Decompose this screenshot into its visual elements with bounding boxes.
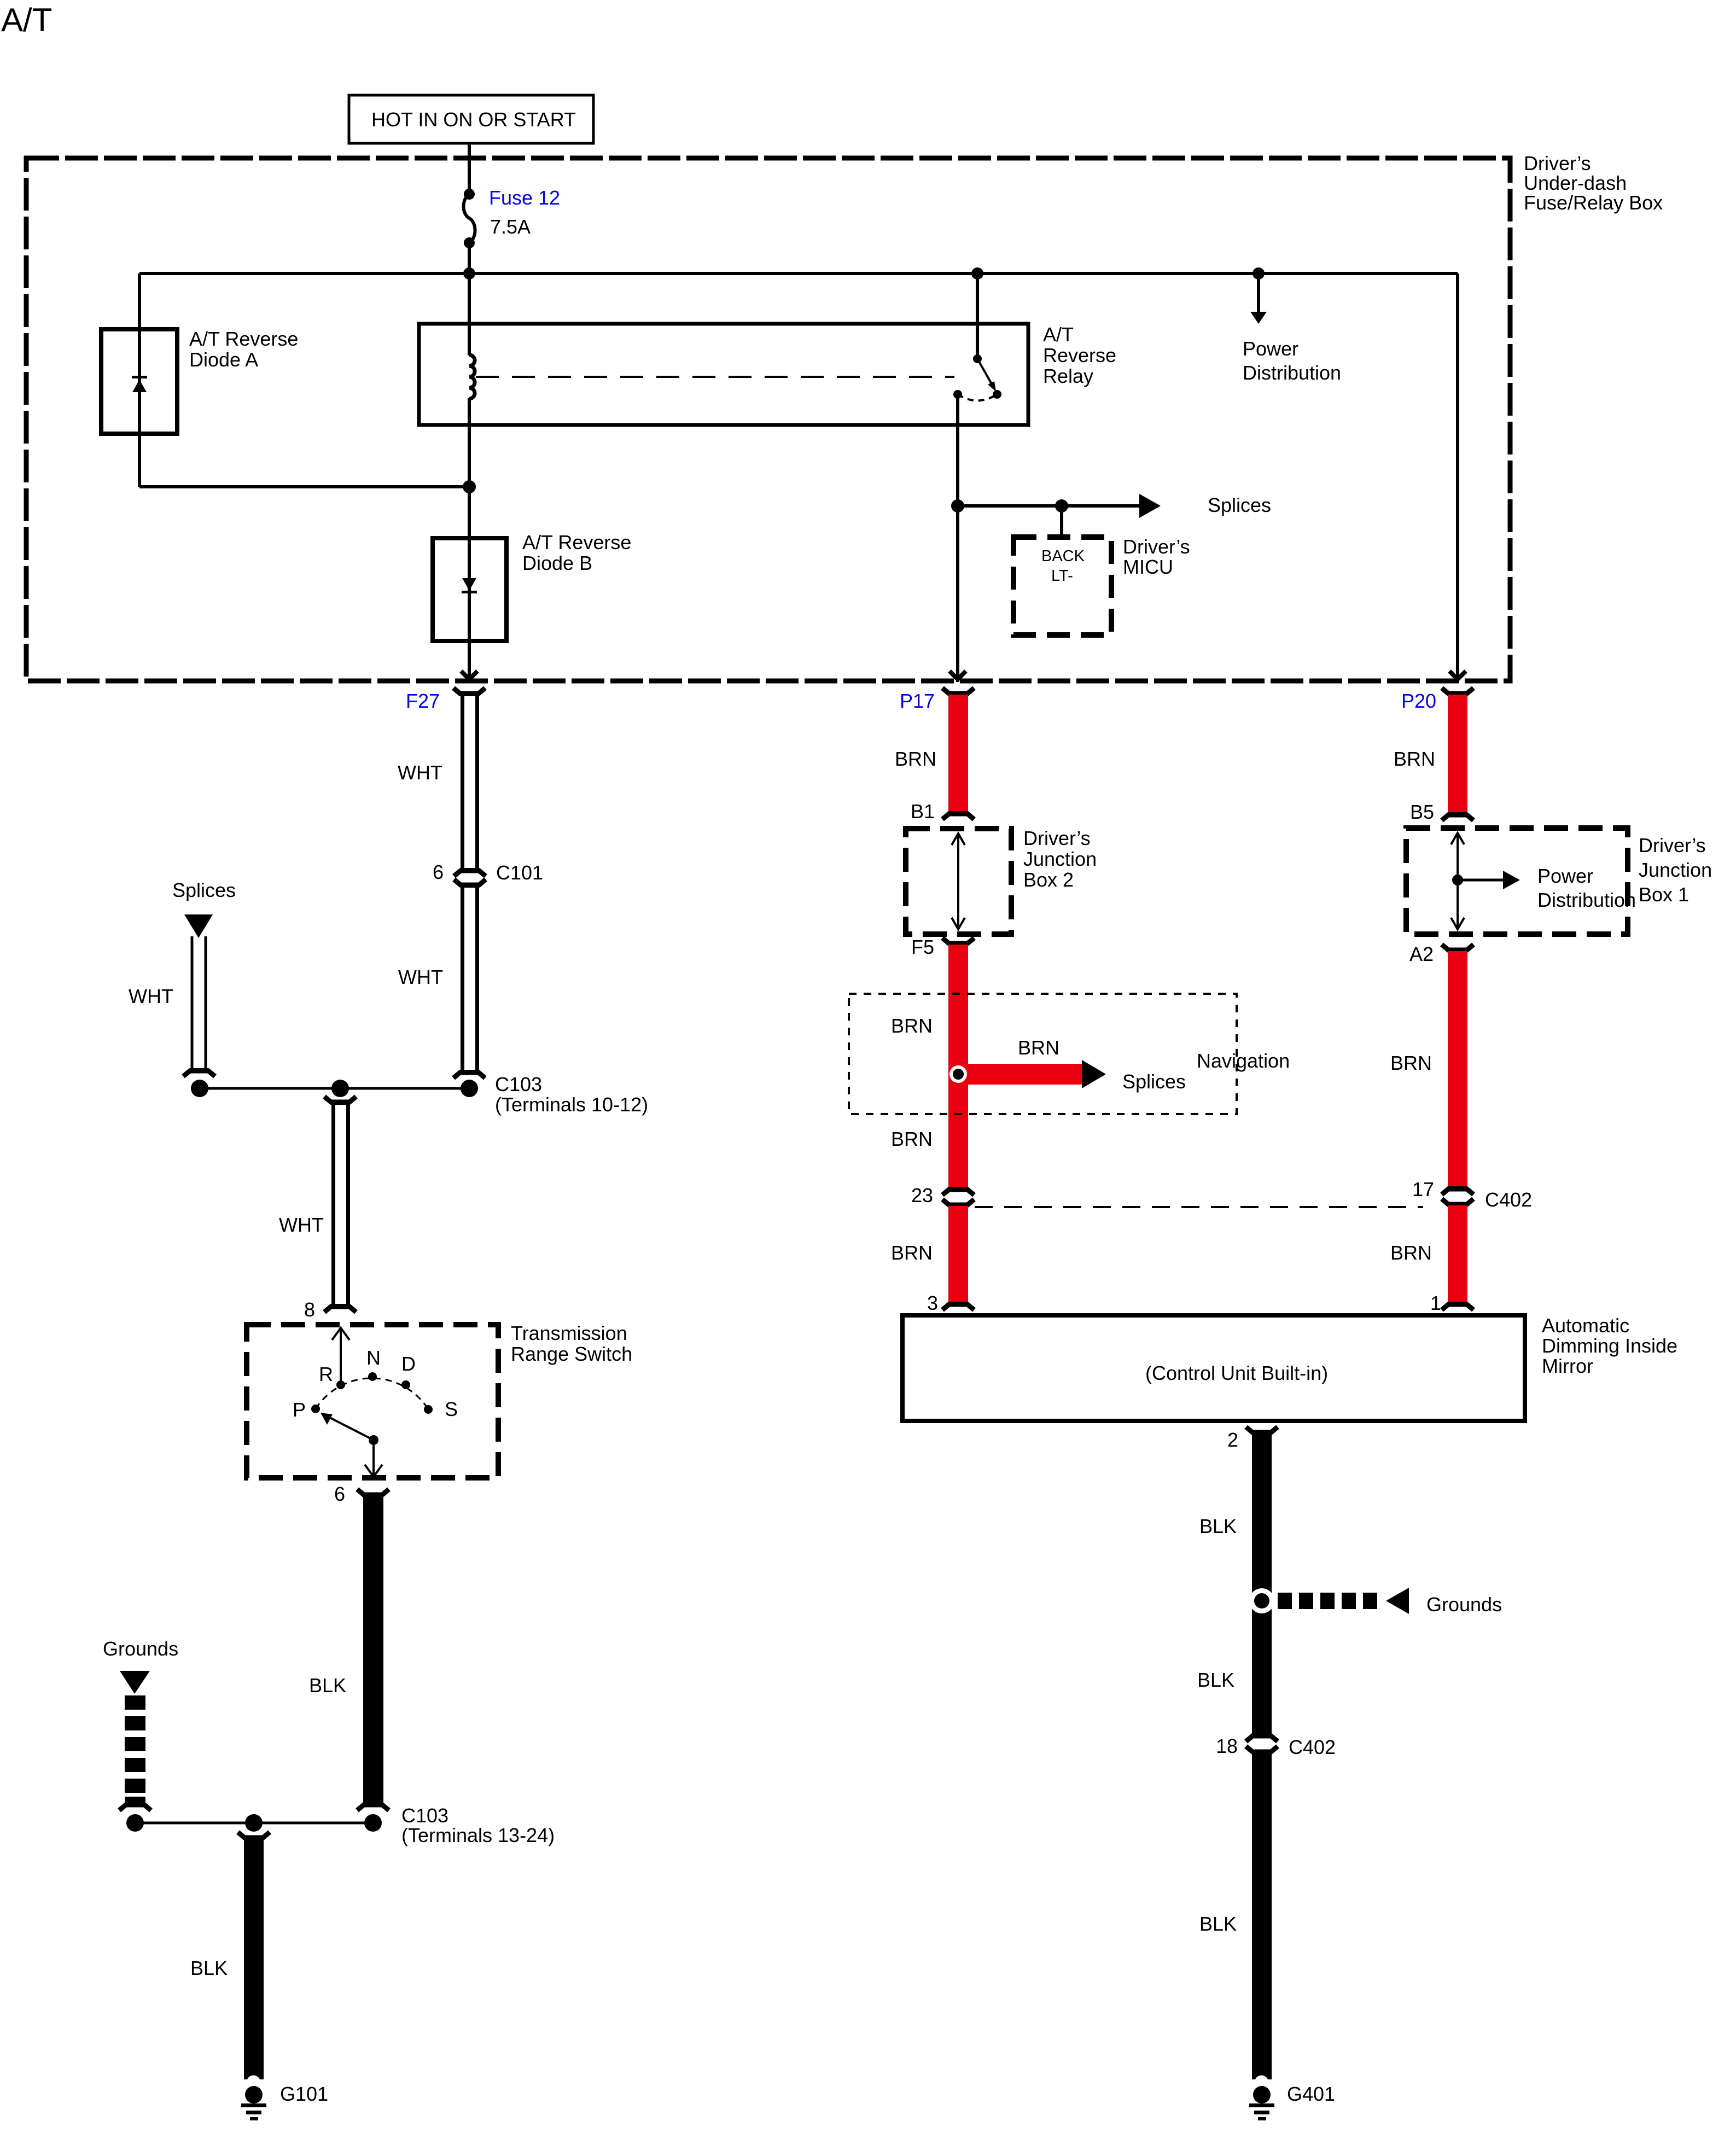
node BLK C103 dot — [364, 1814, 382, 1832]
diode D-A A/T Reverse Diode A — [101, 329, 177, 434]
connector mirror pin 3 — [942, 1302, 974, 1310]
connector mirror pin 1 — [1442, 1302, 1473, 1310]
grounds arrow down — [120, 1671, 150, 1694]
svg-text:P: P — [293, 1398, 306, 1421]
wire WHT C101 to C103 — [463, 884, 477, 1074]
svg-text:WHT: WHT — [398, 966, 443, 988]
relay switch contact right — [993, 390, 1001, 399]
svg-text:BLK: BLK — [1197, 1669, 1234, 1691]
svg-text:P20: P20 — [1401, 690, 1436, 712]
node BACK LT junction — [1055, 499, 1068, 512]
connector stub end — [183, 1068, 215, 1076]
svg-text:Fuse/Relay Box: Fuse/Relay Box — [1524, 191, 1663, 214]
svg-text:A2: A2 — [1409, 943, 1434, 965]
svg-text:G401: G401 — [1287, 2083, 1335, 2105]
svg-text:Splices: Splices — [1122, 1070, 1186, 1093]
connector B5 — [1442, 812, 1473, 820]
svg-text:17: 17 — [1412, 1178, 1434, 1200]
svg-text:G101: G101 — [280, 2083, 328, 2105]
svg-text:1: 1 — [1430, 1292, 1441, 1314]
wire to BACK LT — [1060, 506, 1063, 537]
ground G101 — [241, 2076, 266, 2121]
svg-text:7.5A: 7.5A — [490, 215, 531, 238]
fuse F12 — [464, 189, 475, 248]
connector C101 pin 6 — [454, 868, 486, 888]
svg-text:Junction: Junction — [1023, 848, 1097, 870]
node splice ring junction — [949, 1065, 967, 1083]
svg-text:P17: P17 — [900, 690, 935, 712]
svg-text:Fuse 12: Fuse 12 — [489, 187, 560, 209]
power distribution tap arrow — [1458, 871, 1520, 889]
splices arrow — [1139, 494, 1161, 518]
wire fuse to bus — [468, 243, 471, 324]
node ground stub dot — [126, 1814, 144, 1832]
svg-text:R: R — [319, 1363, 333, 1385]
switch contact S — [424, 1405, 433, 1414]
connector below G101 feed dot — [238, 1832, 270, 1840]
svg-text:WHT: WHT — [129, 985, 173, 1007]
svg-text:Grounds: Grounds — [103, 1637, 178, 1660]
svg-text:Box 2: Box 2 — [1023, 869, 1074, 891]
wire WHT splices stub — [192, 936, 206, 1072]
wire WHT F27 to C101 — [463, 695, 477, 871]
svg-text:C402: C402 — [1485, 1188, 1532, 1211]
svg-text:BRN: BRN — [891, 1015, 933, 1037]
label A/T Reverse Relay — [1043, 323, 1116, 387]
svg-text:MICU: MICU — [1123, 556, 1173, 578]
svg-text:A/T Reverse: A/T Reverse — [522, 531, 631, 553]
connector C402 pin 18 lower — [1246, 1746, 1278, 1755]
svg-text:Distribution: Distribution — [1537, 889, 1636, 911]
connector 23 — [942, 1187, 974, 1195]
svg-text:BRN: BRN — [895, 748, 936, 770]
node G101 feed dot — [245, 1814, 263, 1832]
svg-text:A/T Reverse: A/T Reverse — [189, 328, 298, 350]
relay switch contact left — [953, 390, 962, 399]
wire into relay switch — [976, 273, 979, 359]
wire F27 exit arrow — [461, 671, 477, 679]
connector P17 — [942, 688, 974, 696]
label Power Distribution (box 1) — [1537, 865, 1636, 911]
switch arm to P — [321, 1413, 374, 1440]
label Driver's Junction Box 2 — [1023, 827, 1097, 891]
connector F5 — [942, 938, 974, 946]
switch contact N — [368, 1372, 377, 1381]
junction box 2 dashed — [906, 829, 1011, 934]
wire dashed ground stub — [125, 1695, 145, 1806]
wire BRN 23 to mirror pin 3 — [948, 1206, 968, 1303]
connector BLK at C103 — [357, 1802, 389, 1810]
connector F27 — [453, 688, 485, 696]
svg-text:(Terminals 13-24): (Terminals 13-24) — [401, 1824, 555, 1846]
relay switch arm with arrow — [977, 359, 996, 392]
wire from HOT box to fuse — [468, 143, 471, 194]
node HOT IN ON OR START — [349, 95, 593, 143]
relay coil — [469, 355, 475, 399]
svg-text:Reverse: Reverse — [1043, 344, 1116, 366]
navigation dotted box — [849, 994, 1237, 1114]
svg-text:D: D — [401, 1353, 416, 1375]
svg-text:Navigation: Navigation — [1197, 1050, 1290, 1072]
svg-text:BRN: BRN — [1394, 748, 1435, 770]
svg-text:Diode B: Diode B — [522, 552, 592, 574]
splice branch arrow — [1082, 1060, 1106, 1088]
diode D-B A/T Reverse Diode B — [433, 538, 506, 641]
svg-text:Distribution: Distribution — [1243, 362, 1341, 384]
svg-text:Relay: Relay — [1043, 365, 1093, 387]
node junction below relay — [463, 480, 476, 493]
label Transmission Range Switch — [511, 1322, 632, 1365]
svg-text:BRN: BRN — [891, 1242, 933, 1264]
wire BRN A2 to 17 — [1448, 951, 1467, 1186]
Driver's Under-dash Fuse/Relay Box (dashed enclosure) — [26, 158, 1510, 681]
relay K1 A/T Reverse Relay box — [419, 324, 1028, 425]
node BACK LT- (Driver's MICU dashed box) — [1013, 537, 1111, 635]
wire BRN 17 to mirror pin 1 — [1448, 1205, 1467, 1303]
junction box 1 internal arrow — [1451, 833, 1464, 929]
svg-text:LT-: LT- — [1051, 567, 1073, 585]
svg-text:BRN: BRN — [891, 1128, 933, 1150]
wire P17 exit arrow — [949, 671, 966, 679]
relay actuation dashed link — [476, 376, 954, 378]
wire dashed grounds link — [1278, 1593, 1377, 1609]
wire BLK mirror to C402 — [1252, 1433, 1272, 1734]
wire BRN P17 to B1 — [948, 695, 968, 813]
wire WHT to range switch — [334, 1103, 348, 1308]
node power distribution junction — [1253, 267, 1265, 279]
svg-text:Transmission: Transmission — [511, 1322, 627, 1344]
node C103 dot — [461, 1080, 478, 1097]
power distribution arrow — [1250, 273, 1267, 324]
wire splice feed — [958, 504, 1140, 508]
svg-text:Power: Power — [1537, 865, 1593, 887]
svg-text:Dimming Inside: Dimming Inside — [1542, 1334, 1677, 1357]
svg-text:C103: C103 — [401, 1804, 448, 1827]
svg-text:BLK: BLK — [1199, 1515, 1237, 1537]
label Driver's Junction Box 1 — [1639, 834, 1712, 906]
wire C103 bus (terminals 13-24) — [135, 1822, 373, 1825]
wire right branch down — [1456, 273, 1459, 682]
svg-text:6: 6 — [334, 1483, 345, 1505]
wire BRN F5 to 23 — [948, 945, 968, 1187]
connector below 17 — [1442, 1199, 1473, 1207]
connector C402 pin 18 upper — [1246, 1733, 1278, 1741]
ground G401 — [1249, 2076, 1274, 2121]
connector mirror pin 2 — [1246, 1427, 1278, 1435]
svg-text:WHT: WHT — [279, 1214, 324, 1236]
switch position dots arc — [316, 1378, 428, 1409]
connector 17 — [1442, 1186, 1473, 1194]
connector ground stub end — [119, 1802, 151, 1810]
junction box 1 dashed — [1406, 828, 1628, 934]
svg-text:BRN: BRN — [1018, 1036, 1059, 1059]
svg-text:A/T: A/T — [1043, 323, 1074, 346]
node grounds ring junction — [1249, 1588, 1274, 1613]
svg-text:Diode A: Diode A — [189, 348, 258, 371]
wire lower return line — [139, 485, 469, 488]
svg-text:S: S — [445, 1398, 458, 1420]
svg-text:Mirror: Mirror — [1542, 1355, 1593, 1377]
wire P20 exit arrow — [1449, 671, 1466, 679]
wire BLK C402 to G401 — [1252, 1754, 1272, 2079]
connector A2 — [1442, 945, 1473, 953]
svg-text:C402: C402 — [1289, 1736, 1336, 1758]
mirror U1 Automatic Dimming Inside Mirror — [902, 1315, 1525, 1421]
svg-text:Junction: Junction — [1639, 859, 1712, 881]
svg-text:BLK: BLK — [1199, 1913, 1237, 1935]
svg-text:C103: C103 — [495, 1073, 542, 1095]
node relay supply junction — [971, 267, 983, 279]
relay switch dashed travel arc — [958, 394, 997, 401]
svg-text:B5: B5 — [1410, 801, 1434, 823]
wire into relay coil — [468, 324, 471, 682]
connector C103 end — [453, 1070, 485, 1078]
label C103 (Terminals 10-12) — [495, 1073, 648, 1116]
wire top bus line — [139, 272, 1458, 275]
svg-text:Splices: Splices — [1208, 494, 1271, 516]
svg-text:C101: C101 — [496, 861, 543, 884]
connector below 23 — [942, 1199, 974, 1208]
dashed connector link C402 — [975, 1206, 1423, 1208]
svg-text:BRN: BRN — [1390, 1242, 1432, 1264]
switch S1 Transmission Range Switch dashed box — [247, 1325, 498, 1478]
label A/T Reverse Diode B — [522, 531, 631, 574]
label Driver's Under-dash Fuse/Relay Box — [1524, 152, 1663, 214]
svg-text:8: 8 — [304, 1298, 315, 1321]
svg-text:BACK: BACK — [1041, 547, 1085, 565]
svg-text:Under-dash: Under-dash — [1524, 172, 1627, 194]
switch contact P — [311, 1404, 320, 1413]
svg-text:Driver’s: Driver’s — [1524, 152, 1591, 174]
switch output arrow down — [365, 1440, 382, 1477]
switch pin 8 arrow inside — [332, 1328, 349, 1385]
svg-text:(Terminals 10-12): (Terminals 10-12) — [495, 1093, 648, 1116]
connector P20 — [1442, 688, 1473, 696]
svg-text:WHT: WHT — [398, 761, 442, 784]
svg-text:B1: B1 — [911, 800, 935, 823]
node splice stub dot — [191, 1080, 208, 1097]
svg-text:F5: F5 — [911, 936, 934, 958]
wire BLK to G101 — [244, 1839, 264, 2079]
label Driver's MICU — [1123, 535, 1190, 578]
svg-text:Automatic: Automatic — [1542, 1314, 1629, 1337]
switch contact D — [401, 1380, 410, 1389]
relay switch fixed contact — [973, 354, 982, 363]
node junction box 1 tap — [1452, 875, 1463, 885]
svg-text:18: 18 — [1216, 1735, 1238, 1757]
node switch feed dot — [331, 1080, 349, 1097]
svg-text:Power: Power — [1243, 337, 1298, 360]
switch arm pivot — [369, 1435, 378, 1445]
switch contact R — [336, 1380, 345, 1389]
connector switch pin 6 — [357, 1489, 389, 1497]
svg-text:Splices: Splices — [172, 879, 236, 901]
svg-text:Range Switch: Range Switch — [511, 1343, 632, 1365]
label A/T Reverse Diode A — [189, 328, 298, 371]
svg-text:6: 6 — [433, 861, 444, 883]
svg-text:3: 3 — [927, 1292, 938, 1314]
label Automatic Dimming Inside Mirror — [1542, 1314, 1677, 1377]
wire C103 bus (terminals 10-12) — [200, 1087, 469, 1090]
label Power Distribution — [1243, 337, 1341, 384]
wire left branch down to diode A — [138, 273, 141, 487]
node relay output junction — [951, 499, 964, 512]
svg-text:Driver’s: Driver’s — [1023, 827, 1091, 849]
svg-text:HOT IN ON OR START: HOT IN ON OR START — [371, 108, 576, 131]
svg-text:Box 1: Box 1 — [1639, 883, 1689, 906]
label C103 (Terminals 13-24) — [401, 1804, 555, 1846]
svg-text:F27: F27 — [406, 690, 440, 712]
connector B1 — [942, 811, 974, 819]
connector below switch feed dot — [324, 1097, 356, 1105]
wire BLK switch to C103 — [363, 1496, 383, 1804]
svg-text:A/T: A/T — [1, 2, 52, 38]
wire relay output down — [956, 394, 959, 682]
svg-text:BLK: BLK — [309, 1674, 346, 1697]
splices arrow down — [184, 914, 213, 938]
svg-text:Driver’s: Driver’s — [1123, 535, 1190, 558]
connector pin 8 — [324, 1304, 356, 1312]
svg-text:Grounds: Grounds — [1426, 1593, 1502, 1616]
svg-text:BRN: BRN — [1390, 1052, 1432, 1074]
svg-text:N: N — [366, 1347, 381, 1369]
node fuse output junction — [463, 267, 475, 279]
svg-text:2: 2 — [1227, 1429, 1238, 1451]
svg-text:(Control Unit Built-in): (Control Unit Built-in) — [1145, 1362, 1328, 1384]
grounds link arrow — [1386, 1588, 1409, 1614]
junction box 2 internal arrow — [952, 834, 965, 929]
wire BRN P20 to B5 — [1448, 695, 1467, 814]
wire BRN splice branch — [964, 1064, 1082, 1085]
svg-text:BLK: BLK — [190, 1957, 228, 1979]
svg-text:Driver’s: Driver’s — [1639, 834, 1706, 856]
svg-text:23: 23 — [911, 1184, 933, 1207]
